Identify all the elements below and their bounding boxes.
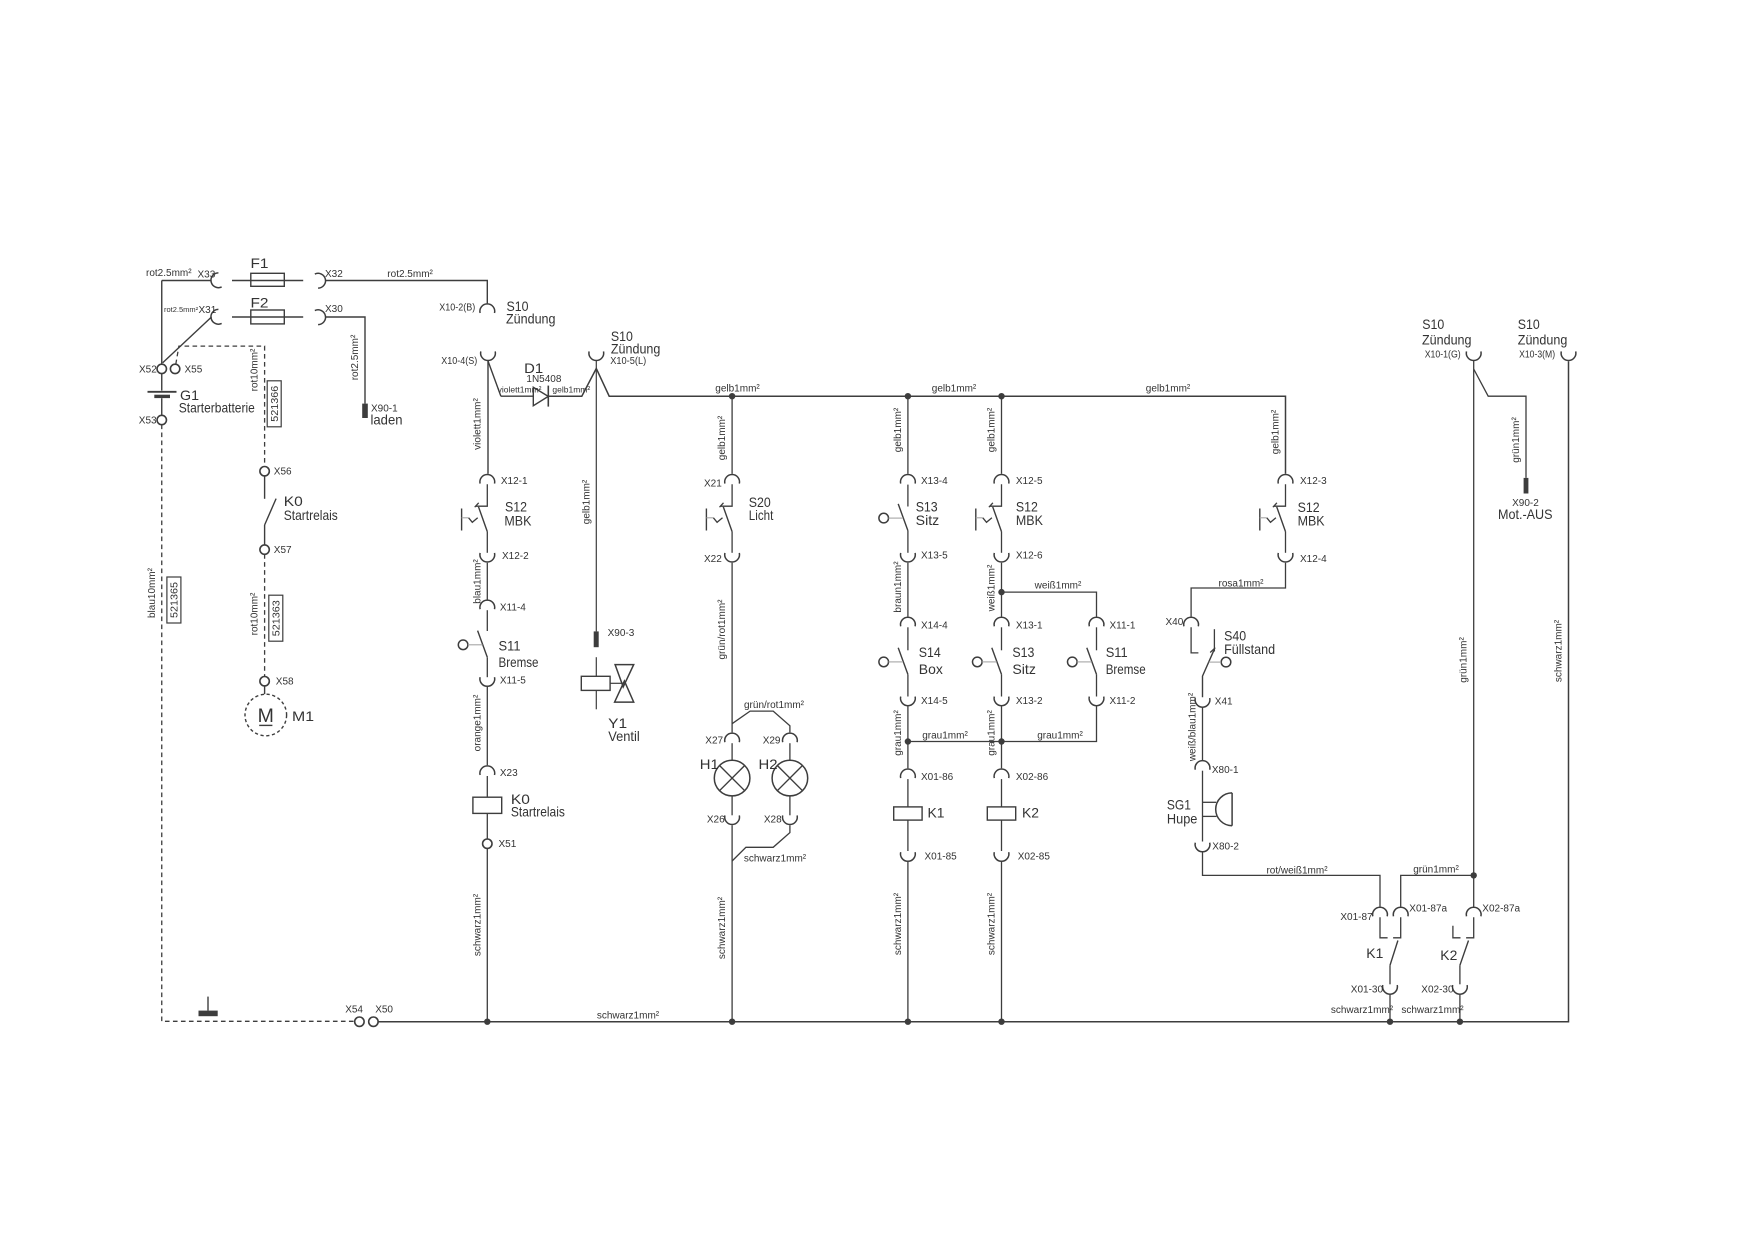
svg-text:X02-87a: X02-87a bbox=[1482, 903, 1520, 914]
svg-text:gelb1mm²: gelb1mm² bbox=[932, 383, 977, 394]
svg-text:rot2.5mm²: rot2.5mm² bbox=[350, 334, 361, 380]
svg-text:521363: 521363 bbox=[271, 600, 283, 636]
svg-text:schwarz1mm²: schwarz1mm² bbox=[1331, 1005, 1394, 1016]
svg-text:X01-86: X01-86 bbox=[921, 772, 954, 783]
svg-text:S11: S11 bbox=[1106, 644, 1128, 660]
svg-text:X80-1: X80-1 bbox=[1212, 765, 1239, 776]
svg-text:Bremse: Bremse bbox=[1106, 661, 1146, 677]
svg-text:X50: X50 bbox=[375, 1005, 393, 1016]
svg-text:K2: K2 bbox=[1440, 947, 1457, 963]
svg-text:weiß1mm²: weiß1mm² bbox=[1034, 580, 1082, 591]
svg-text:X56: X56 bbox=[274, 467, 292, 478]
svg-text:X12-6: X12-6 bbox=[1016, 550, 1043, 561]
svg-text:X12-2: X12-2 bbox=[502, 551, 529, 562]
svg-text:X10-1(G): X10-1(G) bbox=[1425, 350, 1461, 361]
svg-text:violett1mm²: violett1mm² bbox=[498, 384, 542, 394]
svg-text:gelb1mm²: gelb1mm² bbox=[715, 383, 760, 394]
svg-text:braun1mm²: braun1mm² bbox=[893, 561, 904, 613]
svg-text:grün/rot1mm²: grün/rot1mm² bbox=[717, 599, 728, 660]
svg-text:gelb1mm²: gelb1mm² bbox=[987, 407, 998, 452]
svg-text:H2: H2 bbox=[759, 756, 778, 772]
svg-text:X10-2(B): X10-2(B) bbox=[439, 303, 475, 314]
svg-text:X32: X32 bbox=[325, 269, 343, 280]
svg-text:grau1mm²: grau1mm² bbox=[1037, 730, 1083, 741]
svg-text:Startrelais: Startrelais bbox=[511, 804, 565, 820]
svg-text:schwarz1mm²: schwarz1mm² bbox=[893, 892, 904, 955]
svg-text:X10-5(L): X10-5(L) bbox=[610, 356, 646, 367]
svg-text:X80-2: X80-2 bbox=[1212, 842, 1239, 853]
svg-text:X13-5: X13-5 bbox=[921, 550, 948, 561]
svg-text:Sitz: Sitz bbox=[1012, 661, 1036, 677]
svg-text:X12-1: X12-1 bbox=[501, 476, 528, 487]
svg-text:X31: X31 bbox=[199, 305, 217, 316]
svg-text:X10-3(M): X10-3(M) bbox=[1519, 350, 1555, 361]
svg-text:X02-30: X02-30 bbox=[1421, 984, 1454, 995]
svg-text:grau1mm²: grau1mm² bbox=[987, 710, 998, 756]
svg-text:Füllstand: Füllstand bbox=[1224, 641, 1275, 657]
svg-text:X11-5: X11-5 bbox=[500, 675, 526, 686]
svg-text:F1: F1 bbox=[251, 255, 269, 271]
svg-text:X58: X58 bbox=[276, 677, 294, 688]
svg-text:X21: X21 bbox=[704, 479, 722, 490]
svg-text:X90-2: X90-2 bbox=[1512, 498, 1539, 509]
svg-text:grün/rot1mm²: grün/rot1mm² bbox=[744, 700, 805, 711]
svg-text:K1: K1 bbox=[928, 805, 945, 821]
svg-text:rot10mm²: rot10mm² bbox=[249, 348, 260, 391]
svg-text:rot2.5mm²: rot2.5mm² bbox=[387, 269, 433, 280]
svg-text:schwarz1mm²: schwarz1mm² bbox=[1554, 619, 1565, 682]
svg-text:X23: X23 bbox=[500, 768, 518, 779]
svg-text:S10: S10 bbox=[1518, 316, 1540, 332]
svg-text:blau1mm²: blau1mm² bbox=[472, 559, 483, 604]
svg-text:1N5408: 1N5408 bbox=[526, 374, 561, 385]
svg-text:S10: S10 bbox=[1422, 316, 1444, 332]
svg-text:521366: 521366 bbox=[269, 386, 281, 422]
svg-text:X57: X57 bbox=[274, 545, 292, 556]
svg-text:gelb1mm²: gelb1mm² bbox=[552, 384, 590, 394]
svg-text:schwarz1mm²: schwarz1mm² bbox=[744, 854, 807, 865]
svg-text:Bremse: Bremse bbox=[499, 654, 539, 670]
svg-text:X40: X40 bbox=[1166, 617, 1184, 628]
svg-text:gelb1mm²: gelb1mm² bbox=[893, 407, 904, 452]
svg-text:Zündung: Zündung bbox=[1422, 332, 1472, 348]
svg-text:rot10mm²: rot10mm² bbox=[250, 592, 261, 635]
svg-text:weiß/blau1mm²: weiß/blau1mm² bbox=[1188, 692, 1199, 762]
svg-text:X01-30: X01-30 bbox=[1351, 984, 1384, 995]
svg-text:Zündung: Zündung bbox=[506, 311, 556, 327]
svg-text:X54: X54 bbox=[345, 1005, 363, 1016]
svg-text:MBK: MBK bbox=[1298, 513, 1326, 529]
svg-text:violett1mm²: violett1mm² bbox=[472, 397, 483, 449]
svg-text:X28: X28 bbox=[764, 815, 782, 826]
svg-text:grau1mm²: grau1mm² bbox=[922, 730, 968, 741]
svg-text:Zündung: Zündung bbox=[611, 340, 661, 356]
svg-text:X27: X27 bbox=[705, 735, 723, 746]
svg-text:gelb1mm²: gelb1mm² bbox=[581, 479, 592, 524]
svg-text:Sitz: Sitz bbox=[916, 512, 940, 528]
svg-text:grün1mm²: grün1mm² bbox=[1413, 865, 1459, 876]
svg-text:X14-5: X14-5 bbox=[921, 696, 948, 707]
svg-text:X01-87a: X01-87a bbox=[1409, 903, 1447, 914]
svg-text:gelb1mm²: gelb1mm² bbox=[717, 415, 728, 460]
svg-text:gelb1mm²: gelb1mm² bbox=[1271, 409, 1282, 454]
svg-text:X12-4: X12-4 bbox=[1300, 554, 1327, 565]
svg-text:Starterbatterie: Starterbatterie bbox=[179, 400, 255, 416]
svg-text:X01-87: X01-87 bbox=[1340, 912, 1373, 923]
svg-text:grau1mm²: grau1mm² bbox=[893, 710, 904, 756]
svg-text:MBK: MBK bbox=[1016, 512, 1044, 528]
svg-text:F2: F2 bbox=[251, 295, 269, 311]
svg-text:schwarz1mm²: schwarz1mm² bbox=[597, 1010, 660, 1021]
svg-text:schwarz1mm²: schwarz1mm² bbox=[987, 892, 998, 955]
svg-text:X90-3: X90-3 bbox=[608, 628, 635, 639]
svg-text:X02-86: X02-86 bbox=[1016, 772, 1049, 783]
svg-text:Box: Box bbox=[919, 661, 943, 677]
svg-text:X51: X51 bbox=[499, 839, 517, 850]
svg-text:grün1mm²: grün1mm² bbox=[1511, 417, 1522, 463]
svg-text:X10-4(S): X10-4(S) bbox=[441, 356, 477, 367]
svg-text:K1: K1 bbox=[1366, 945, 1383, 961]
svg-text:X02-85: X02-85 bbox=[1018, 852, 1051, 863]
svg-text:X52: X52 bbox=[139, 365, 157, 376]
svg-text:K2: K2 bbox=[1022, 805, 1039, 821]
svg-text:X53: X53 bbox=[139, 416, 157, 427]
svg-text:X11-1: X11-1 bbox=[1110, 621, 1136, 632]
svg-text:rosa1mm²: rosa1mm² bbox=[1218, 578, 1264, 589]
svg-text:X33: X33 bbox=[198, 270, 216, 281]
svg-text:Startrelais: Startrelais bbox=[284, 507, 338, 523]
svg-text:X11-2: X11-2 bbox=[1110, 696, 1136, 707]
svg-text:X55: X55 bbox=[185, 365, 203, 376]
svg-text:grün1mm²: grün1mm² bbox=[1459, 637, 1470, 683]
svg-text:schwarz1mm²: schwarz1mm² bbox=[717, 896, 728, 959]
svg-text:weiß1mm²: weiß1mm² bbox=[987, 564, 998, 612]
svg-text:orange1mm²: orange1mm² bbox=[472, 694, 483, 751]
svg-text:Hupe: Hupe bbox=[1167, 811, 1198, 827]
svg-text:X41: X41 bbox=[1215, 696, 1233, 707]
svg-text:rot2.5mm²: rot2.5mm² bbox=[146, 268, 192, 279]
svg-text:H1: H1 bbox=[700, 756, 719, 772]
svg-text:Licht: Licht bbox=[749, 507, 774, 523]
svg-text:X13-4: X13-4 bbox=[921, 476, 948, 487]
svg-text:521365: 521365 bbox=[169, 582, 181, 618]
svg-text:gelb1mm²: gelb1mm² bbox=[1146, 383, 1191, 394]
svg-text:X13-2: X13-2 bbox=[1016, 696, 1043, 707]
svg-text:X90-1: X90-1 bbox=[371, 404, 398, 415]
svg-text:X11-4: X11-4 bbox=[500, 602, 526, 613]
svg-text:S11: S11 bbox=[499, 637, 521, 653]
svg-text:X26: X26 bbox=[707, 815, 725, 826]
svg-text:S14: S14 bbox=[919, 644, 941, 660]
svg-text:Zündung: Zündung bbox=[1518, 332, 1568, 348]
svg-text:schwarz1mm²: schwarz1mm² bbox=[472, 893, 483, 956]
svg-text:X12-5: X12-5 bbox=[1016, 476, 1043, 487]
svg-text:X22: X22 bbox=[704, 554, 722, 565]
svg-text:X14-4: X14-4 bbox=[921, 621, 948, 632]
svg-text:rot2.5mm²: rot2.5mm² bbox=[164, 305, 199, 314]
svg-text:rot/weiß1mm²: rot/weiß1mm² bbox=[1266, 866, 1328, 877]
svg-text:M1: M1 bbox=[292, 708, 314, 724]
svg-text:X01-85: X01-85 bbox=[925, 852, 958, 863]
svg-text:S13: S13 bbox=[1012, 644, 1034, 660]
svg-text:schwarz1mm²: schwarz1mm² bbox=[1401, 1005, 1464, 1016]
svg-text:MBK: MBK bbox=[504, 512, 532, 528]
svg-text:X30: X30 bbox=[325, 304, 343, 315]
svg-text:X29: X29 bbox=[763, 735, 781, 746]
svg-text:blau10mm²: blau10mm² bbox=[147, 567, 158, 618]
svg-text:X12-3: X12-3 bbox=[1300, 476, 1327, 487]
svg-text:M: M bbox=[258, 705, 274, 727]
svg-text:Ventil: Ventil bbox=[608, 728, 640, 744]
svg-text:X13-1: X13-1 bbox=[1016, 621, 1043, 632]
